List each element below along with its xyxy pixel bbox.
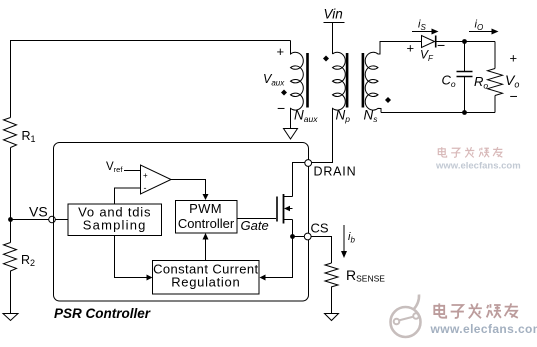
svg-text:Sampling: Sampling — [83, 218, 147, 233]
wire op-amp minus feedback to sampling box — [115, 188, 141, 204]
svg-text:Controller: Controller — [178, 216, 235, 231]
wire CC to PWM — [205, 239, 207, 261]
wire DRAIN to primary — [312, 109, 333, 163]
node dot top (Co) — [462, 39, 467, 44]
mosfet body arrow — [284, 206, 290, 211]
ground (Rsense) — [325, 314, 339, 321]
wire gate PWM to mosfet — [238, 218, 277, 220]
core bar 3 — [362, 53, 365, 108]
wire output right down — [494, 42, 496, 69]
resistor R1 — [4, 118, 17, 148]
arrowhead into CC right — [260, 275, 266, 281]
svg-text:+: + — [510, 51, 518, 66]
arrowhead into PWM top — [203, 194, 209, 200]
diode D1 — [422, 36, 435, 48]
resistor Ro — [488, 69, 503, 96]
watermark logo circle — [391, 295, 537, 338]
watermark small — [435, 147, 521, 171]
pin CS circle — [304, 233, 311, 240]
svg-text:DRAIN: DRAIN — [314, 165, 357, 179]
wire Vin to primary — [332, 23, 334, 55]
wire R2 to ground — [10, 271, 12, 314]
svg-text:+: + — [277, 44, 285, 59]
wire op-amp out to PWM top — [171, 180, 206, 196]
svg-text:Regulation: Regulation — [171, 274, 240, 289]
arrowhead io — [492, 29, 499, 35]
node dot bottom (Co) — [462, 110, 467, 115]
svg-text:+: + — [143, 171, 148, 180]
winding Np — [333, 52, 346, 162]
PSR controller box — [54, 143, 309, 302]
svg-text:PWM: PWM — [189, 201, 222, 216]
wire Rsense to ground — [331, 287, 333, 314]
current io arrow — [469, 31, 494, 33]
current is arrow — [412, 31, 434, 33]
wire sampling bottom to CC box — [115, 236, 149, 278]
capacitor Co plates — [457, 71, 473, 73]
svg-text:www.elecfans.com: www.elecfans.com — [430, 322, 537, 336]
phase dot Naux — [281, 90, 287, 96]
wire R1 to VS node — [10, 148, 12, 243]
ground (Naux) — [284, 129, 298, 140]
phase dot Np — [323, 56, 329, 62]
pin DRAIN circle — [305, 160, 312, 167]
svg-text:PSR Controller: PSR Controller — [54, 306, 151, 321]
current ib arrow — [343, 225, 345, 254]
mosfet drain wire — [293, 163, 305, 197]
core bar 2 — [346, 53, 349, 108]
mosfet source wire — [292, 220, 294, 237]
phase dot Ns — [385, 97, 391, 103]
wire source dot to CS pin — [293, 236, 305, 238]
arrowhead into CC left — [147, 275, 153, 281]
svg-text:VS: VS — [29, 204, 48, 220]
block Constant Current Regulation — [153, 261, 260, 295]
winding Naux — [291, 41, 304, 129]
watermark text large — [434, 303, 518, 318]
wire bottom rail secondary — [381, 112, 495, 114]
core bar 1 — [306, 53, 309, 108]
ground (left) — [3, 314, 18, 321]
resistor R2 — [4, 243, 17, 272]
svg-text:+: + — [407, 41, 415, 56]
wire top rail left — [11, 41, 291, 118]
Vin terminal bar — [324, 22, 345, 24]
capacitor Co wires — [464, 42, 466, 72]
block Vo and tdis Sampling — [68, 204, 162, 236]
node VS junction dot — [8, 217, 13, 222]
wire secondary top rail — [380, 41, 422, 43]
svg-text:-: - — [144, 183, 147, 193]
arrowhead into PWM bottom (from CC) — [203, 233, 209, 240]
svg-text:−: − — [510, 88, 518, 104]
svg-text:Vin: Vin — [324, 7, 343, 22]
svg-text:www.elecfans.com: www.elecfans.com — [435, 161, 521, 172]
svg-text:−: − — [437, 37, 445, 53]
svg-text:CS: CS — [311, 221, 329, 236]
arrowhead is — [432, 29, 439, 35]
wire VS node to pin — [13, 219, 49, 221]
wire diode to output — [436, 41, 495, 43]
pin VS circle — [49, 216, 56, 223]
wire CS to Rsense — [311, 237, 331, 264]
wire pin VS to sampling box — [55, 219, 68, 221]
resistor Rsense — [325, 263, 338, 287]
block PWM Controller — [176, 201, 238, 234]
wire Vref to op-amp — [124, 170, 141, 172]
node source junction dot — [290, 234, 295, 239]
svg-text:Gate: Gate — [241, 218, 269, 233]
winding Ns — [365, 41, 381, 113]
svg-text:−: − — [277, 100, 285, 116]
transistor Q1 mosfet — [277, 163, 305, 237]
wire Ro to bottom rail — [494, 96, 496, 113]
op-amp U1 — [141, 165, 172, 194]
wire source dot to CC box — [264, 237, 293, 278]
